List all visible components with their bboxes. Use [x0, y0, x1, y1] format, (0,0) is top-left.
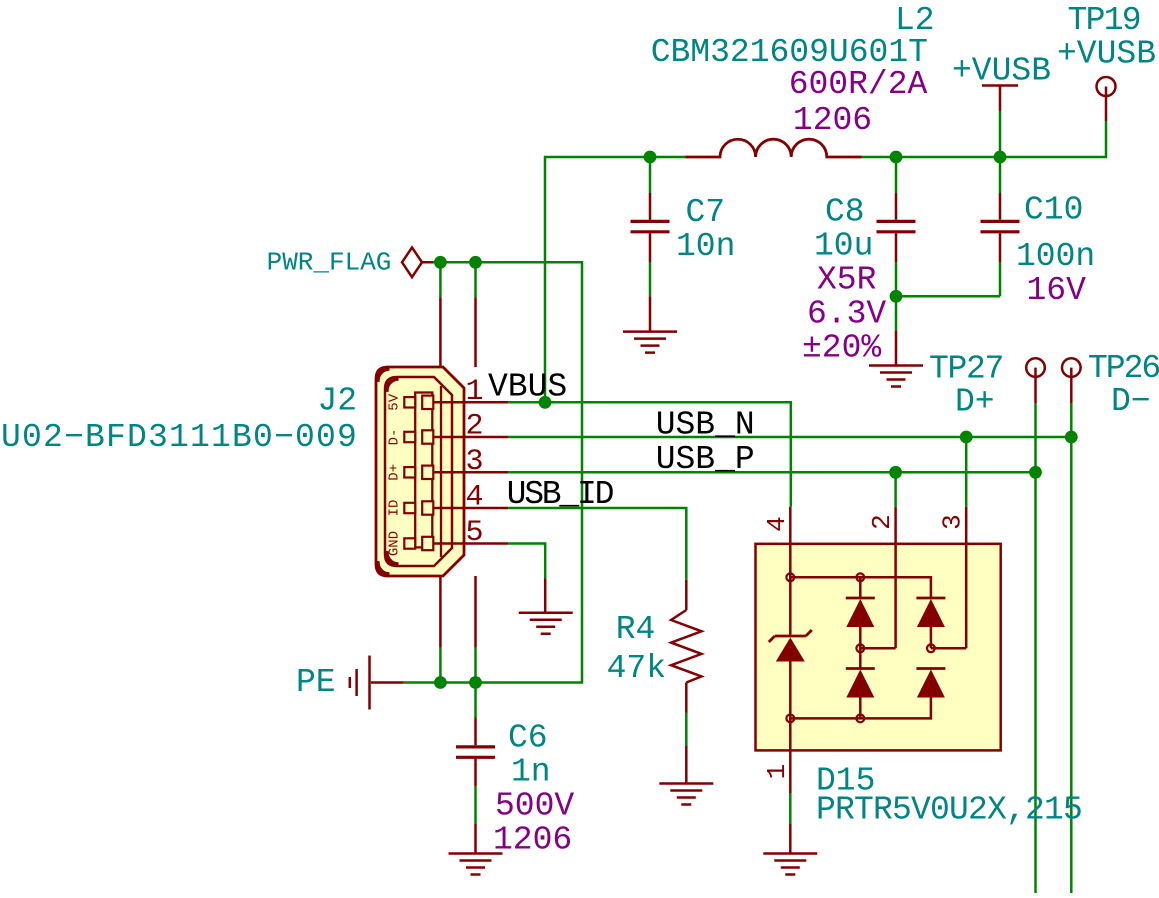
- svg-text:USB_N: USB_N: [656, 407, 755, 444]
- svg-text:1: 1: [762, 764, 792, 780]
- svg-text:USB_ID: USB_ID: [507, 476, 614, 513]
- svg-text:TP19: TP19: [1068, 2, 1140, 39]
- svg-text:3: 3: [938, 514, 968, 530]
- svg-text:500V: 500V: [495, 788, 574, 825]
- svg-text:D+: D+: [955, 384, 995, 421]
- svg-text:+VUSB: +VUSB: [1057, 36, 1156, 73]
- svg-text:PWR_FLAG: PWR_FLAG: [267, 248, 392, 278]
- svg-text:C7: C7: [686, 194, 726, 231]
- svg-text:D−: D−: [1111, 383, 1151, 420]
- svg-text:PE: PE: [296, 664, 336, 701]
- svg-text:100n: 100n: [1016, 238, 1095, 275]
- svg-text:1206: 1206: [793, 102, 872, 139]
- svg-text:5: 5: [465, 516, 483, 550]
- svg-text:10u: 10u: [814, 228, 873, 265]
- svg-text:4: 4: [465, 481, 483, 515]
- svg-text:PRTR5V0U2X,215: PRTR5V0U2X,215: [816, 792, 1082, 829]
- svg-text:U02−BFD3111B0−009: U02−BFD3111B0−009: [1, 419, 358, 456]
- svg-text:+VUSB: +VUSB: [952, 53, 1051, 90]
- svg-text:C10: C10: [1024, 192, 1083, 229]
- svg-text:5V: 5V: [387, 393, 403, 410]
- svg-text:10n: 10n: [676, 228, 735, 265]
- svg-text:4: 4: [762, 516, 792, 532]
- svg-text:C6: C6: [508, 720, 548, 757]
- svg-text:D-: D-: [387, 429, 403, 446]
- svg-text:GND: GND: [387, 531, 403, 556]
- svg-text:D+: D+: [387, 464, 403, 481]
- svg-text:C8: C8: [825, 194, 865, 231]
- svg-text:1206: 1206: [493, 822, 572, 859]
- svg-text:6.3V: 6.3V: [807, 296, 886, 333]
- svg-text:16V: 16V: [1027, 272, 1087, 309]
- svg-text:VBUS: VBUS: [488, 369, 567, 406]
- svg-text:TP26: TP26: [1088, 350, 1159, 387]
- svg-text:1n: 1n: [511, 754, 551, 791]
- svg-text:R4: R4: [616, 611, 656, 648]
- svg-text:ID: ID: [387, 500, 403, 517]
- svg-text:TP27: TP27: [929, 351, 1003, 388]
- svg-text:47k: 47k: [607, 650, 666, 687]
- svg-text:600R/2A: 600R/2A: [789, 66, 928, 103]
- svg-text:±20%: ±20%: [802, 330, 881, 367]
- svg-text:X5R: X5R: [817, 262, 876, 299]
- svg-text:USB_P: USB_P: [656, 441, 755, 478]
- svg-text:2: 2: [465, 410, 483, 444]
- svg-text:J2: J2: [318, 383, 358, 420]
- svg-text:2: 2: [867, 514, 897, 530]
- svg-text:3: 3: [465, 445, 483, 479]
- svg-text:1: 1: [465, 375, 483, 409]
